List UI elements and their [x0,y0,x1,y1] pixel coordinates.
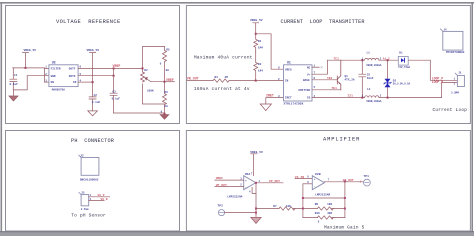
svg-text:J1: J1 [458,72,462,75]
junction TP2 wire [255,212,257,214]
resistor R8 10K [315,203,334,210]
svg-text:10K: 10K [286,205,291,208]
svg-text:CURRENT LOOP TRANSMITTER: CURRENT LOOP TRANSMITTER [281,19,365,25]
wire U2A output [256,182,283,184]
inductor L1 600R,300mA [362,52,382,68]
junction C5 top [361,59,363,61]
svg-text:1M4: 1M4 [258,46,263,49]
svg-text:40K: 40K [327,212,332,215]
svg-text:VREF: VREF [113,64,121,68]
capacitor C2 0.1uF [89,94,100,111]
wire EN-row [45,81,50,83]
svg-text:TP2: TP2 [218,205,224,208]
connector J1 3.5MM [451,72,464,95]
svg-text:PH CONNECTOR: PH CONNECTOR [71,138,114,144]
wire divider loop [143,47,165,105]
svg-text:IRET: IRET [266,94,274,98]
op-amp U2A [227,172,255,198]
svg-text:VA_N: VA_N [101,198,108,201]
wire pin7 to top rail [312,60,328,74]
svg-text:Current Loop: Current Loop [433,108,468,113]
TVS diode D2 [384,60,411,97]
junction rail1 [255,208,257,210]
svg-text:VA_IN: VA_IN [295,175,304,179]
wire left pin bus [45,68,50,82]
svg-text:100K: 100K [147,89,154,92]
junction VREF1 [113,67,115,69]
ground arrow (D) [251,215,261,223]
svg-text:TE1: TE1 [332,87,338,90]
svg-text:OUTS: OUTS [69,75,76,78]
power flag VREG_5V (D) [250,151,263,176]
wire EMITTER [312,89,341,91]
svg-text:IN: IN [73,81,77,84]
transistor Q1 [337,60,355,90]
svg-text:VREF: VREF [166,78,174,82]
ground arrow IRET [260,104,271,111]
potentiometer R2 100K [141,69,165,93]
svg-text:R6: R6 [164,91,168,94]
svg-text:BASE: BASE [303,79,310,82]
svg-text:VREF: VREF [216,176,224,180]
section box A voltage reference [6,6,180,124]
svg-text:L1: L1 [367,52,371,55]
resistor R10 40K [315,212,334,223]
junction C5 bottom [361,97,363,99]
wire top rail [328,60,458,80]
svg-text:VP_OUT: VP_OUT [269,179,280,183]
svg-text:V+: V+ [307,73,311,76]
svg-text:IO: IO [307,97,311,100]
wire IN rail [187,80,284,82]
svg-text:R7: R7 [273,205,277,208]
inductor L2 600R,300mA [362,88,382,103]
power flag VREG_5V (B) [250,19,263,34]
wire input- [215,186,244,188]
connector J3 [79,191,92,211]
junction U2B out [344,180,346,182]
svg-text:R10: R10 [315,212,320,215]
junction stage2 [302,208,304,210]
svg-text:VREG_5V: VREG_5V [24,49,37,52]
svg-text:TB1: TB1 [327,77,333,80]
svg-text:FILTER: FILTER [51,68,61,71]
svg-text:10K: 10K [327,203,332,206]
pin numbers U3 left [45,66,47,83]
pin numbers U3 right [80,66,82,83]
junction flag1 [25,67,27,69]
junction IN rail [255,80,257,82]
svg-text:C3: C3 [112,90,116,93]
svg-text:2M: 2M [225,76,229,79]
outer window frame left [1,2,3,232]
capacitor C3 0.1uF [110,68,120,113]
svg-text:3.5MM: 3.5MM [451,91,459,94]
section box C ph connector [6,131,180,232]
op-amp U2B [312,172,330,197]
junction IN pin [92,81,94,83]
svg-text:A1.3: A1.3 [383,58,390,61]
svg-text:C5: C5 [367,73,371,76]
svg-text:U3: U3 [52,60,56,64]
svg-text:Maximum 40uA current: Maximum 40uA current [194,55,253,60]
svg-text:+: + [245,180,247,183]
resistor R7 10K [273,205,295,210]
svg-text:To pH Sensor: To pH Sensor [71,213,106,218]
svg-text:AMPLIFIER: AMPLIFIER [323,136,360,142]
svg-text:R8: R8 [315,203,319,206]
svg-text:LMP2232AM: LMP2232AM [315,193,330,196]
ground (A left) [9,90,18,101]
diode D1 72V,72mA [398,51,411,69]
svg-text:XTR117AIDGK: XTR117AIDGK [284,102,304,105]
svg-text:IRET: IRET [285,97,292,100]
wire stage2 vertical [302,184,304,218]
svg-text:C2: C2 [94,94,98,97]
wire cap to gnd corner [13,76,27,90]
ground (A bottom right) [164,113,166,115]
svg-text:NC: NC [307,66,311,69]
resistor R1 [254,34,264,52]
pin 4 stub [252,187,256,193]
power flag VREG_5V (A right) [87,49,100,97]
wire bottom rail (D) [303,217,345,219]
svg-text:EMITTER: EMITTER [299,89,311,92]
svg-text:Maximum Gain 5: Maximum Gain 5 [324,225,365,230]
svg-text:-: - [314,185,316,188]
svg-text:D1: D1 [399,51,403,54]
svg-text:0.1uF: 0.1uF [92,101,101,104]
op IC U3 MAX6070 [49,60,78,91]
svg-text:MYCRF700N02: MYCRF700N02 [446,51,465,54]
svg-text:R2: R2 [144,69,148,72]
section box B current loop transmitter [186,6,470,124]
junction VREF2 [113,75,115,77]
svg-text:U1: U1 [287,60,291,64]
wire VREF stub [165,81,175,83]
wire to pin8 corner [256,34,284,69]
svg-text:J3: J3 [81,191,85,194]
junction TVS bottom [387,97,389,99]
svg-text:0A: 0A [164,105,168,108]
svg-text:TP1: TP1 [364,175,370,178]
bottom scroll band [0,231,474,236]
svg-text:U2B: U2B [315,172,321,176]
svg-text:R1: R1 [258,40,262,43]
svg-text:4TX,2A: 4TX,2A [345,79,355,82]
junction wiper [164,81,166,83]
svg-text:VREG: VREG [285,68,292,71]
wire top-left to bus [13,67,45,69]
wire J3 pin1 [89,196,110,198]
resistor R6 0A [161,82,168,114]
op IC U1 XTR117 [284,60,313,105]
svg-text:OUTF: OUTF [69,68,76,71]
wire pin6 [303,183,312,185]
antenna box MYCRF700N02 [440,29,464,54]
junction flag B [255,33,257,35]
svg-text:J2: J2 [80,155,84,158]
svg-text:3.5mm: 3.5mm [81,208,89,211]
wire U2B output [324,181,363,183]
wire feedback down [255,183,257,215]
section box D amplifier [186,131,470,232]
svg-text:IZ1: IZ1 [348,95,354,98]
connector J2 BNC [79,155,99,182]
junction fb left [302,197,304,199]
wire BASE [312,79,338,81]
wire C3 to right-branch ground [114,112,165,114]
wire mid rail [256,208,345,210]
svg-text:C1: C1 [14,74,18,77]
outer window frame right [471,2,473,232]
svg-text:IN: IN [285,80,289,83]
svg-text:+: + [314,178,316,181]
svg-text:72V,72mA: 72V,72mA [398,66,411,69]
svg-text:160uA current at 4v: 160uA current at 4v [194,87,250,92]
svg-text:J4: J4 [444,29,448,32]
svg-text:-: - [245,186,247,189]
svg-text:GND: GND [51,75,56,78]
wire IRET [266,98,284,104]
svg-text:VR_OUT: VR_OUT [187,77,199,81]
svg-text:1K4: 1K4 [258,70,263,73]
wire pin5 input [295,178,312,180]
svg-text:0A: 0A [166,69,170,72]
svg-text:EN: EN [51,81,55,84]
svg-text:BNC91100002: BNC91100002 [80,178,99,181]
svg-text:VP_OUT: VP_OUT [216,183,227,187]
wire bottom rail pin4 [312,83,457,98]
junction pot top [142,67,144,69]
svg-text:MAX6070A: MAX6070A [52,89,66,92]
wire TP2 [225,212,256,214]
svg-text:VREG_5V: VREG_5V [250,151,263,154]
junction U2A out [255,182,257,184]
junction fb right [344,197,346,199]
wire IN pin [78,81,93,83]
no-connect x pin1 [321,66,323,68]
svg-text:LMP2232AM: LMP2232AM [227,196,242,199]
wire NC pin1 [312,66,319,68]
svg-text:VREG_5V: VREG_5V [87,49,100,52]
svg-text:VA_P: VA_P [98,194,105,197]
svg-text:600R,300mA: 600R,300mA [366,100,382,103]
svg-text:U2A: U2A [245,172,251,176]
wire feedback top rail [303,197,345,199]
wire feedback right vertical [344,181,346,217]
capacitor C5 10nF [359,60,374,97]
test point TP1 [360,175,371,186]
wire input+ [215,179,244,181]
wire OUTS [78,75,114,77]
pin numbers U1 [278,65,316,98]
svg-text:10nF: 10nF [367,77,374,80]
svg-text:TC1: TC1 [334,58,340,61]
svg-text:L2: L2 [367,88,371,91]
wire J3 pin2 [89,199,104,201]
junction mid right [344,208,346,210]
svg-text:0.1uF: 0.1uF [10,83,19,86]
svg-text:0.1uF: 0.1uF [112,98,121,101]
outer window frame top [0,2,474,4]
ground (below C2) [88,111,98,116]
svg-text:600R,300mA: 600R,300mA [366,64,382,67]
power flag VREG_5V (A left) [23,49,37,68]
svg-text:SA,5.0V,0.5A: SA,5.0V,0.5A [393,83,411,86]
wire GND-row [27,75,49,77]
test point TP2 [218,205,225,216]
resistor R4 2M [213,76,229,82]
svg-text:LOOP_N: LOOP_N [432,80,444,84]
svg-text:VREG_5V: VREG_5V [250,19,263,22]
resistor R3 [254,52,264,81]
capacitor C1 0.1uF [10,68,19,90]
junction TVS top [387,59,389,61]
svg-text:VOLTAGE REFERENCE: VOLTAGE REFERENCE [56,19,121,25]
svg-text:R4: R4 [215,76,219,79]
svg-text:R5: R5 [166,48,170,51]
svg-text:R3: R3 [258,63,262,66]
wire OUTF to VREF branch [78,67,142,69]
resistor R5 0A [160,47,170,82]
